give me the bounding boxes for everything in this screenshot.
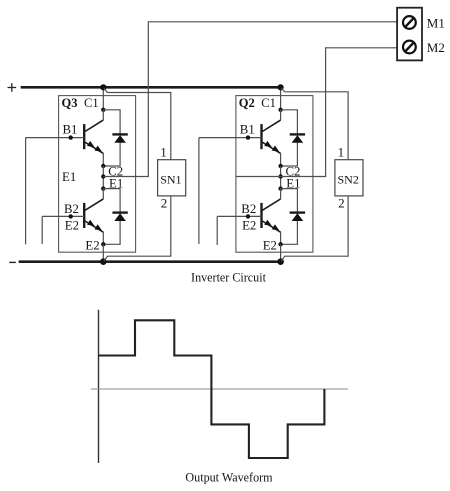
svg-text:E2: E2 xyxy=(242,219,256,233)
wire: snubber SN2 pin 2 to -bus xyxy=(281,196,348,261)
wire: base B2 lead into module xyxy=(217,215,261,217)
diode D2 cathode bar xyxy=(112,211,127,213)
wire: collector stub of upper transistor xyxy=(102,110,104,120)
wire: snubber SN1 pin 2 to -bus xyxy=(104,196,171,261)
wire: B1 gate-drive drop xyxy=(25,138,27,245)
transistor T2 emitter arrowhead 1 xyxy=(264,220,272,226)
svg-text:E1: E1 xyxy=(62,170,76,184)
positive DC bus wire xyxy=(21,86,281,89)
svg-text:SN1: SN1 xyxy=(160,173,181,187)
node B1 terminal dot xyxy=(69,135,73,139)
diode D1 cathode bar xyxy=(290,133,305,135)
wire: emitter of T2 down to E2 node xyxy=(102,232,104,245)
node B2 terminal dot xyxy=(69,214,73,218)
wire: collector stub of upper transistor xyxy=(280,110,282,120)
wire: midpoint vertical xyxy=(280,166,282,189)
transistor T2 emitter arrowhead 1 xyxy=(87,220,95,226)
transistor T1 emitter arrowhead 2 xyxy=(272,146,280,152)
negative DC bus wire xyxy=(19,260,281,263)
svg-text:Output Waveform: Output Waveform xyxy=(185,471,273,485)
snubber SN1 box xyxy=(158,160,186,196)
transistor T2 emitter diagonal xyxy=(85,221,103,232)
wire: +bus junction down to C1 node xyxy=(102,87,104,110)
svg-text:1: 1 xyxy=(338,145,345,160)
transistor T1 collector diagonal xyxy=(85,120,103,131)
wire: snubber SN1 pin 1 to +bus xyxy=(104,88,171,160)
wire: base B1 lead into module xyxy=(199,137,262,139)
svg-text:B2: B2 xyxy=(241,202,256,216)
wire: E1 stub to module left edge xyxy=(236,176,281,178)
diode D2 branch wire (node to node through diode) xyxy=(281,189,298,245)
node C2 lower junction dot (T2 collector + D2 cathode) xyxy=(278,186,282,190)
node C2/E1 midpoint dot (T1 emitter + D1 anode) xyxy=(101,164,105,168)
diode D2 triangle (anode, pointing up) xyxy=(292,213,304,221)
node C1 junction dot xyxy=(101,108,105,112)
wire: emitter of T1 down to midpoint xyxy=(102,153,104,166)
node C2 lower junction dot (T2 collector + D2 cathode) xyxy=(101,186,105,190)
plus sign of DC bus xyxy=(8,87,17,89)
node B1 terminal dot xyxy=(246,135,250,139)
svg-text:2: 2 xyxy=(338,196,345,211)
node E2 dot xyxy=(101,242,105,246)
snubber SN2 box xyxy=(335,160,363,196)
transistor T2 emitter arrowhead 2 xyxy=(95,224,103,230)
node C2/E1 midpoint dot (T1 emitter + D1 anode) xyxy=(278,164,282,168)
node: -bus junction dot leg 1 xyxy=(100,258,107,265)
wire: emitter of T1 down to midpoint xyxy=(280,153,282,166)
transistor T1 collector diagonal xyxy=(262,120,280,131)
wire: leg1 output to motor terminal M1 xyxy=(103,22,397,177)
transistor T2 emitter diagonal xyxy=(262,221,280,232)
transistor T1 emitter diagonal xyxy=(262,142,280,153)
transistor T1 (upper IGBT) base bar xyxy=(260,124,262,149)
transistor T2 (lower IGBT) base bar xyxy=(83,203,85,228)
motor terminal block xyxy=(397,8,422,61)
node E2 dot xyxy=(278,242,282,246)
transistor T1 emitter arrowhead 2 xyxy=(95,146,103,152)
svg-text:E2: E2 xyxy=(65,219,79,233)
svg-text:M2: M2 xyxy=(427,40,445,55)
node output tap dot xyxy=(101,174,105,178)
wire: E2 down to negative bus xyxy=(102,244,104,261)
diode D2 cathode bar xyxy=(290,211,305,213)
svg-text:Q3: Q3 xyxy=(62,96,78,110)
screw terminal M1 xyxy=(403,16,416,29)
diode D1 triangle (anode, pointing up) xyxy=(292,135,304,143)
svg-text:B2: B2 xyxy=(64,202,79,216)
node: +bus junction dot leg 1 xyxy=(100,84,106,90)
svg-text:B1: B1 xyxy=(240,123,255,137)
diode D2 branch wire (node to node through diode) xyxy=(103,189,120,245)
svg-text:E2: E2 xyxy=(263,239,277,253)
svg-text:1: 1 xyxy=(160,145,167,160)
wire: collector stub of lower transistor xyxy=(102,189,104,199)
transistor T1 emitter arrowhead 1 xyxy=(87,141,95,147)
node C1 junction dot xyxy=(278,108,282,112)
wire: emitter of T2 down to E2 node xyxy=(280,232,282,245)
diode D1 branch wire (node to node through diode) xyxy=(103,110,120,166)
svg-text:B1: B1 xyxy=(63,123,78,137)
svg-text:M1: M1 xyxy=(427,15,445,30)
node output tap dot xyxy=(278,174,282,178)
wire: snubber SN2 pin 1 to +bus xyxy=(281,88,348,160)
wire: base B1 lead into module xyxy=(26,137,85,139)
waveform zero baseline xyxy=(91,388,348,390)
diode D1 triangle (anode, pointing up) xyxy=(114,135,126,143)
wire: leg2 output to motor terminal M2 xyxy=(281,48,398,177)
svg-text:C1: C1 xyxy=(261,96,276,110)
transistor T2 collector diagonal xyxy=(262,199,280,210)
svg-text:E2: E2 xyxy=(85,239,99,253)
wire: +bus junction down to C1 node xyxy=(280,87,282,110)
svg-text:Inverter Circuit: Inverter Circuit xyxy=(191,271,267,285)
node: -bus junction dot leg 2 xyxy=(277,258,284,265)
wire: base B2 lead into module xyxy=(42,215,84,217)
transistor T1 emitter diagonal xyxy=(85,142,103,153)
minus sign of DC bus xyxy=(9,261,16,263)
wire: B2 gate-drive drop xyxy=(41,216,43,244)
node B2 terminal dot xyxy=(246,214,250,218)
transistor T2 emitter arrowhead 2 xyxy=(272,224,280,230)
svg-text:2: 2 xyxy=(161,196,168,211)
wire: midpoint vertical xyxy=(102,166,104,189)
transistor T2 collector diagonal xyxy=(85,199,103,210)
transistor T1 (upper IGBT) base bar xyxy=(83,124,85,149)
diode D1 branch wire (node to node through diode) xyxy=(281,110,298,166)
svg-text:C1: C1 xyxy=(84,96,99,110)
wire: collector stub of lower transistor xyxy=(280,189,282,199)
svg-text:Q2: Q2 xyxy=(239,96,255,110)
IGBT module Q2 outline box xyxy=(236,96,313,253)
output waveform stepped trace xyxy=(99,320,325,458)
wire: B1 gate-drive drop xyxy=(198,138,200,244)
waveform vertical axis xyxy=(98,310,100,463)
node: +bus junction dot leg 2 xyxy=(278,84,284,90)
wire: E2 down to negative bus xyxy=(280,244,282,261)
diode D2 triangle (anode, pointing up) xyxy=(114,213,126,221)
wire: B2 gate-drive drop xyxy=(216,216,218,245)
transistor T2 (lower IGBT) base bar xyxy=(260,203,262,228)
svg-text:SN2: SN2 xyxy=(338,173,359,187)
diode D1 cathode bar xyxy=(112,133,127,135)
transistor T1 emitter arrowhead 1 xyxy=(264,141,272,147)
IGBT module Q3 outline box xyxy=(59,96,136,253)
screw terminal M2 xyxy=(403,41,416,54)
